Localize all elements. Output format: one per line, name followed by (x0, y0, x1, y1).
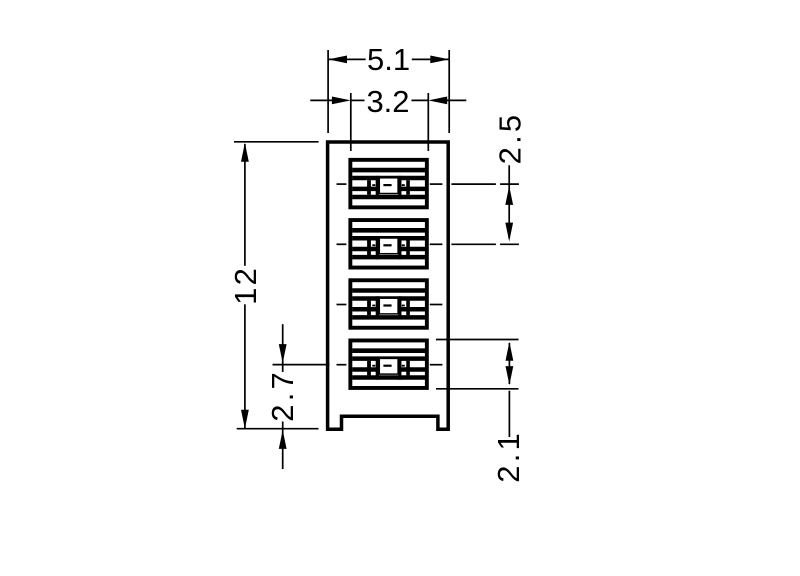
dimension 12 bottom extension line (237, 428, 319, 430)
slot 1 inner line L4 (352, 195, 425, 200)
dimension 2.1 line (508, 343, 510, 384)
svg-text:2.7: 2.7 (265, 369, 300, 422)
dimension 2.1 top extension line (436, 339, 519, 341)
slot 3 centerline dash middle (383, 304, 391, 306)
dimension 3.2 inner shaft left (351, 99, 365, 101)
slot 2 inner line L3 (352, 247, 425, 252)
svg-text:2.1: 2.1 (491, 430, 526, 483)
slot 3 bar b1 (367, 301, 371, 316)
dimension 2.7 arrowhead down (279, 344, 287, 363)
dimension 12 line lower segment (244, 304, 246, 428)
slot 1 inner line L1 (352, 168, 425, 173)
slot 2 centerline extension to dimension 2.5 (451, 243, 496, 245)
slot 2 inner line L2 (352, 236, 425, 241)
svg-text:5.1: 5.1 (367, 42, 410, 77)
dimension 5.1 line right shaft (412, 58, 449, 60)
slot 1 centerline dash middle (383, 184, 391, 186)
slot 1 centerline tick left gap (372, 184, 375, 186)
component body outline (328, 142, 449, 429)
dimension 5.1 line left shaft (328, 58, 366, 60)
dimension 2.7 top extension line (slot 4 centerline to body) (273, 364, 330, 366)
slot 3 centerline tick right gap (402, 305, 405, 307)
dimension 3.2 arrowhead right (pointing left) (428, 97, 447, 105)
slot 4 bar b4 (406, 361, 410, 376)
dimension 2.1 tail to label (508, 391, 510, 437)
slot 4 centerline dash right (430, 364, 443, 366)
dimension 2.7 arrowhead up (279, 430, 287, 449)
slot 2 centerline tick left gap (372, 244, 375, 246)
slot 1 bar b3 (398, 176, 401, 199)
slot 2 centerline tick right gap (402, 244, 405, 246)
slot 1 center box (379, 178, 398, 194)
slot 1 centerline extension to dimension 2.5 (451, 183, 496, 185)
svg-text:2.5: 2.5 (493, 112, 528, 165)
slot 2 inner line L4 (352, 255, 425, 260)
slot 3 bar b3 (398, 296, 401, 319)
slot 3 centerline dash left (337, 304, 347, 306)
dimension 12 line upper segment (244, 144, 246, 266)
slot 4 centerline tick right gap (402, 365, 405, 367)
slot window 4 outer border (350, 340, 427, 388)
dimension 2.1 bottom extension line (436, 388, 519, 390)
slot 4 centerline dash left (337, 364, 347, 366)
slot 1 centerline dash right (430, 183, 443, 185)
dimension 12 top extension line (234, 141, 319, 143)
dimension 2.1 arrowhead down (506, 366, 514, 385)
slot 2 bar b2 (376, 236, 379, 259)
slot 4 inner line L2 (352, 356, 425, 361)
dimension 2.7 lower arrow line (282, 422, 284, 470)
svg-text:12: 12 (228, 266, 263, 305)
slot 3 inner line L2 (352, 296, 425, 301)
slot 3 bar b4 (406, 301, 410, 316)
slot 2 inner line L1 (352, 228, 425, 233)
dimension 2.5 line (508, 165, 510, 238)
slot 4 bar b3 (398, 357, 401, 380)
dimension 2.5 arrowhead down (505, 223, 513, 242)
slot 2 bar b3 (398, 236, 401, 259)
slot 2 centerline dash right (430, 243, 443, 245)
slot 2 bar b1 (367, 240, 371, 255)
slot 4 bar b1 (367, 361, 371, 376)
slot 4 inner line L4 (352, 375, 425, 380)
slot 3 inner line L4 (352, 315, 425, 320)
slot 3 center box (379, 298, 398, 314)
dimension 3.2 inner shaft right (412, 99, 429, 101)
slot 4 bar b2 (376, 357, 379, 380)
slot 3 centerline tick left gap (372, 305, 375, 307)
dimension 2.5 arrowhead up (505, 186, 513, 205)
slot 2 centerline dash left (337, 243, 347, 245)
slot 1 bar b4 (406, 180, 410, 195)
slot 2 centerline dash middle (383, 244, 391, 246)
slot 3 centerline dash right (430, 304, 443, 306)
slot window 1 outer border (350, 160, 427, 208)
dimension 3.2 right shaft (446, 99, 466, 101)
slot 4 inner line L3 (352, 367, 425, 372)
dimension 3.2 extension line right (427, 93, 429, 151)
dimension 3.2 extension line left (350, 93, 352, 151)
slot 1 centerline tick right gap (402, 184, 405, 186)
slot 4 center box (379, 358, 398, 374)
slot 1 bar b2 (376, 176, 379, 199)
slot 4 centerline tick left gap (372, 365, 375, 367)
slot 4 inner line L1 (352, 348, 425, 353)
dimension 12 arrowhead down (241, 410, 249, 429)
slot 1 inner line L3 (352, 187, 425, 192)
svg-text:3.2: 3.2 (366, 84, 409, 119)
dimension 5.1 arrowhead right (430, 56, 449, 64)
dimension 2.1 arrowhead up (506, 342, 514, 361)
dimension 3.2 left shaft (310, 99, 333, 101)
slot window 3 outer border (350, 280, 427, 328)
slot 1 centerline dash left (337, 183, 347, 185)
slot window 2 outer border (350, 220, 427, 267)
dimension 12 arrowhead up (241, 143, 249, 162)
slot 2 center box (379, 238, 398, 254)
slot 4 centerline dash middle (383, 365, 391, 367)
dimension 5.1 extension line left (327, 50, 329, 133)
slot 2 bar b4 (406, 240, 410, 255)
slot 1 bar b1 (367, 180, 371, 195)
slot 3 bar b2 (376, 296, 379, 319)
dimension 5.1 arrowhead left (328, 56, 347, 64)
slot 3 inner line L1 (352, 288, 425, 293)
slot 3 inner line L3 (352, 307, 425, 312)
dimension 3.2 arrowhead left (pointing right) (332, 97, 351, 105)
dimension 2.7 upper arrow line (282, 324, 284, 372)
dimension 5.1 extension line right (448, 50, 450, 133)
slot 1 inner line L2 (352, 176, 425, 181)
